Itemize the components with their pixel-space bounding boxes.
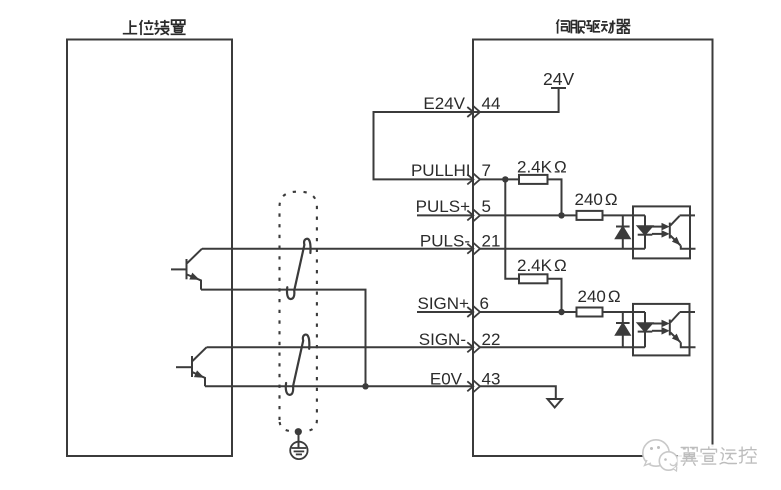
- twisted pair shield dashed outline: [280, 192, 317, 431]
- label servo 伺服驱动器: [556, 19, 630, 33]
- optocoupler U2 phototransistor: [670, 312, 696, 347]
- svg-text:2.4KΩ: 2.4KΩ: [517, 158, 567, 177]
- resistor R1 2.4K: [519, 175, 548, 184]
- diode D2: [616, 312, 630, 347]
- resistor R4 240: [577, 308, 603, 317]
- shield drain node: [295, 428, 302, 435]
- connector pin 44: [467, 106, 480, 118]
- connector pin 21: [467, 243, 480, 255]
- optocoupler U2 light arrows: [652, 321, 669, 334]
- transistor Q1: [171, 249, 202, 290]
- signal ground symbol: [548, 399, 563, 408]
- optocoupler U1 light arrows: [652, 224, 669, 237]
- wire E0V to signal ground: [480, 386, 556, 399]
- wire SIGN+ to R4: [480, 311, 577, 313]
- wire SIGN+ stub: [417, 311, 473, 313]
- wire R4 to opto2 LED: [603, 311, 646, 313]
- servo drive box 伺服驱动器: [473, 40, 713, 457]
- node junction SIGN+: [558, 309, 564, 315]
- node junction PULS+: [558, 212, 564, 218]
- svg-text:44: 44: [482, 94, 501, 113]
- connector pin 5: [467, 209, 480, 221]
- connector pin 22: [467, 341, 480, 353]
- svg-text:240Ω: 240Ω: [575, 190, 618, 209]
- svg-text:24V: 24V: [543, 69, 574, 89]
- twist symbol pair 2: [286, 335, 310, 395]
- wire PULS- from Q1 collector: [202, 248, 473, 250]
- svg-text:7: 7: [482, 161, 491, 180]
- optocoupler U1 phototransistor: [670, 215, 696, 248]
- connector pin 43: [467, 380, 480, 392]
- optocoupler U1 LED: [638, 215, 653, 248]
- wire SIGN- from Q2 collector: [207, 346, 474, 348]
- earth ground symbol: [290, 432, 307, 459]
- 24V supply bar: [551, 87, 566, 89]
- wire R1 to PULS+ junction: [548, 179, 562, 215]
- wire R2 to opto1 LED: [603, 214, 646, 216]
- wire Q1 emitter to E0V junction: [201, 290, 366, 387]
- svg-text:240Ω: 240Ω: [578, 287, 621, 306]
- wire SIGN- to opto2 LED cathode: [480, 346, 645, 348]
- wire PULLHI to R1: [480, 178, 519, 180]
- wire E24V to 24V riser: [480, 88, 559, 112]
- diode D1: [616, 215, 630, 248]
- label host 上位装置: [123, 20, 186, 35]
- wire R3 to SIGN+ junction: [548, 279, 562, 312]
- optocoupler U2 box: [633, 304, 690, 356]
- host device box 上位装置: [67, 40, 232, 457]
- wire PULLHI junction down to R3: [505, 179, 519, 278]
- wire E0V from Q2 emitter: [205, 385, 473, 387]
- node junction E0V: [362, 383, 368, 389]
- svg-text:E0V: E0V: [430, 370, 463, 389]
- svg-text:SIGN+: SIGN+: [418, 294, 470, 313]
- svg-text:2.4KΩ: 2.4KΩ: [517, 256, 567, 275]
- resistor R3 2.4K: [519, 274, 548, 283]
- wire PULS+ stub: [417, 214, 473, 216]
- wire E24V loop to PULLHI: [374, 112, 481, 179]
- wire PULS- to opto1 LED cathode: [480, 248, 645, 250]
- svg-text:PULLHI: PULLHI: [411, 161, 471, 180]
- optocoupler U1 box: [633, 206, 690, 258]
- transistor Q2: [176, 347, 207, 386]
- node junction PULLHI: [502, 176, 508, 182]
- svg-text:5: 5: [482, 197, 491, 216]
- svg-text:22: 22: [482, 330, 501, 349]
- svg-text:43: 43: [482, 370, 501, 389]
- connector pin 6: [467, 306, 480, 318]
- wire PULS+ to R2: [480, 214, 577, 216]
- optocoupler U2 LED: [638, 312, 653, 347]
- svg-text:E24V: E24V: [423, 94, 465, 113]
- watermark text 翼宣运控: [678, 445, 759, 469]
- connector pin 7: [467, 173, 480, 185]
- svg-text:PULS-: PULS-: [420, 231, 470, 250]
- svg-text:PULS+: PULS+: [416, 197, 470, 216]
- twist symbol pair 1: [287, 239, 311, 299]
- resistor R2 240: [577, 211, 603, 220]
- svg-text:SIGN-: SIGN-: [419, 330, 466, 349]
- watermark logo bubble small: [659, 452, 677, 471]
- svg-text:21: 21: [482, 231, 501, 250]
- watermark logo bubble large: [643, 440, 669, 466]
- svg-text:6: 6: [480, 294, 489, 313]
